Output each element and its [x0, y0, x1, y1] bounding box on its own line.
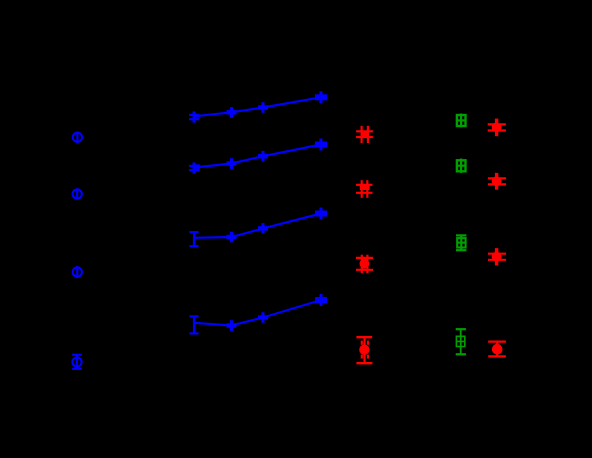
line4 point4 marker: [315, 294, 327, 306]
red hash marker column1 row2: [356, 180, 373, 198]
line4 point2 marker: [227, 320, 237, 331]
blue circle marker row3 with error bar: [73, 266, 82, 278]
line3 point3 marker: [258, 223, 268, 234]
line1 point3 marker: [258, 102, 268, 113]
blue series line 1: [194, 97, 321, 116]
red hash marker column1 row1: [356, 126, 373, 143]
blue circle marker row1 with error bar: [73, 131, 82, 143]
line1 point2 marker: [227, 107, 237, 118]
line1 point1 marker + error bar: [189, 112, 199, 123]
red hash+circle marker column1 row3: [356, 255, 373, 274]
red circle with large capped error bar column1 row4: [356, 337, 372, 363]
red star marker column2 row1: [488, 119, 506, 137]
line4 point1 capped error bar: [189, 316, 198, 334]
red star marker column2 row2: [488, 173, 506, 190]
blue series line 2: [194, 145, 321, 168]
blue circle marker row4 with capped error bar: [72, 355, 82, 369]
line2 point2 marker: [227, 158, 237, 169]
green square-plus marker row1: [456, 114, 466, 128]
green square-plus marker with capped error bar row3: [456, 235, 466, 251]
line4 point3 marker: [258, 312, 268, 323]
red star marker column2 row3: [488, 248, 506, 265]
line2 point3 marker: [258, 151, 268, 162]
red circle with capped error bar column2 row4: [488, 342, 506, 357]
line2 point4 marker: [315, 139, 327, 151]
line2 point1 marker + error bar: [189, 163, 200, 174]
blue series line 3: [194, 214, 321, 238]
green square-plus marker row2: [456, 159, 466, 173]
line1 point4 marker: [315, 91, 327, 103]
blue circle marker row2 with error bar: [73, 188, 82, 200]
line3 point1 capped error bar: [189, 232, 198, 246]
green square-plus marker with tall capped error bar row4: [456, 329, 466, 355]
line3 point4 marker: [315, 208, 327, 220]
blue series line 4: [194, 300, 321, 326]
line3 point2 marker: [227, 232, 237, 243]
